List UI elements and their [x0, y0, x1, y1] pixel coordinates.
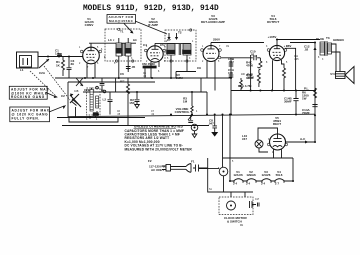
- svg-text:50L6: 50L6: [276, 173, 283, 177]
- svg-text:.005: .005: [294, 59, 299, 61]
- svg-text:2.2M: 2.2M: [176, 76, 183, 80]
- svg-text:T3: T3: [326, 36, 330, 40]
- svg-text:220K: 220K: [247, 76, 255, 80]
- svg-text:C17: C17: [255, 199, 260, 201]
- svg-text:T2: T2: [178, 31, 182, 35]
- svg-text:1.5: 1.5: [55, 52, 60, 56]
- svg-text:12BA6: 12BA6: [246, 173, 256, 177]
- svg-text:.002: .002: [228, 60, 234, 64]
- svg-text:F1: F1: [191, 160, 195, 164]
- svg-text:1M: 1M: [183, 100, 188, 104]
- svg-text:C2: C2: [61, 94, 65, 98]
- svg-text:BLUE: BLUE: [316, 37, 324, 41]
- svg-text:CONV: CONV: [85, 23, 94, 27]
- svg-text:T1: T1: [120, 30, 124, 34]
- svg-text:C9: C9: [197, 66, 201, 70]
- svg-text:& SWITCH: & SWITCH: [227, 220, 242, 224]
- svg-text:+ 86V: + 86V: [284, 44, 292, 48]
- svg-text:.047: .047: [208, 122, 214, 126]
- svg-text:C2A: C2A: [39, 71, 46, 75]
- svg-text:39: 39: [71, 62, 75, 66]
- svg-text:A-C: A-C: [300, 137, 306, 141]
- svg-text:RECT: RECT: [273, 122, 281, 126]
- svg-text:ROCKING GANG: ROCKING GANG: [11, 95, 45, 99]
- svg-text:AVC: AVC: [120, 80, 125, 83]
- svg-text:DET-AUDIO AMP: DET-AUDIO AMP: [201, 20, 225, 24]
- svg-text:12AU6: 12AU6: [233, 173, 243, 177]
- svg-text:C7: C7: [167, 38, 171, 42]
- svg-text:MEASURED WITH 20,000Ω/VOLT MET: MEASURED WITH 20,000Ω/VOLT METER: [125, 147, 193, 151]
- svg-text:MAX@455KC: MAX@455KC: [109, 19, 134, 23]
- svg-text:FULLY OPEN.: FULLY OPEN.: [12, 117, 40, 121]
- svg-text:C6: C6: [120, 72, 124, 76]
- svg-text:GREEN: GREEN: [333, 38, 344, 42]
- svg-text:C2B: C2B: [84, 88, 91, 92]
- svg-text:+105V: +105V: [268, 35, 277, 39]
- svg-text:12AV6: 12AV6: [262, 173, 271, 177]
- svg-text:2 7: 2 7: [275, 182, 280, 186]
- svg-text:F2: F2: [148, 159, 152, 163]
- svg-text:L3: L3: [108, 38, 112, 42]
- svg-text:L2: L2: [103, 98, 107, 102]
- svg-text:250V: 250V: [213, 38, 220, 42]
- svg-text:1W: 1W: [302, 97, 307, 101]
- svg-text:CONTROL: CONTROL: [175, 110, 190, 114]
- svg-text:470K: 470K: [246, 64, 254, 68]
- svg-text:#47: #47: [242, 137, 247, 141]
- svg-text:L1: L1: [20, 68, 24, 72]
- svg-text:70MF: 70MF: [302, 111, 310, 115]
- svg-text:OUTPUT: OUTPUT: [267, 20, 280, 24]
- svg-text:.02: .02: [304, 48, 309, 52]
- svg-text:SPKR: SPKR: [330, 74, 337, 76]
- svg-text:30MF: 30MF: [284, 100, 292, 104]
- svg-text:.05: .05: [131, 65, 136, 69]
- svg-text:100: 100: [228, 71, 233, 75]
- svg-text:C2B: C2B: [74, 91, 79, 93]
- svg-text:MODELS 911D, 912D, 913D, 914D: MODELS 911D, 912D, 913D, 914D: [83, 5, 219, 13]
